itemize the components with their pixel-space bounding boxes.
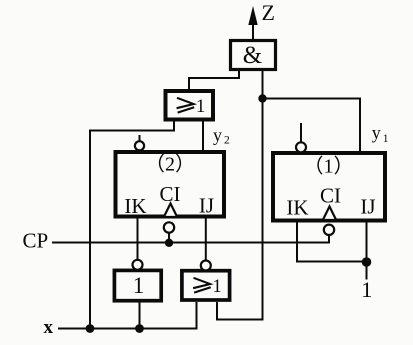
svg-text:（2）: （2） (145, 153, 195, 176)
svg-text:1: 1 (383, 133, 389, 145)
svg-text:x: x (44, 317, 54, 338)
svg-text:1: 1 (361, 277, 372, 302)
svg-text:IJ: IJ (199, 194, 214, 218)
svg-text:Z: Z (262, 0, 275, 25)
svg-text:y: y (372, 122, 381, 142)
svg-text:1: 1 (196, 97, 205, 117)
svg-text:1: 1 (212, 277, 221, 297)
svg-text:y: y (213, 125, 222, 145)
svg-text:CI: CI (160, 182, 181, 206)
svg-text:&: & (243, 42, 262, 69)
svg-text:1: 1 (133, 273, 145, 298)
svg-text:IK: IK (286, 196, 308, 220)
svg-text:CP: CP (23, 229, 49, 253)
svg-text:IK: IK (124, 194, 146, 218)
svg-text:IJ: IJ (360, 195, 375, 219)
svg-text:CI: CI (320, 184, 341, 208)
svg-text:2: 2 (224, 135, 230, 147)
svg-text:（1）: （1） (304, 155, 354, 178)
